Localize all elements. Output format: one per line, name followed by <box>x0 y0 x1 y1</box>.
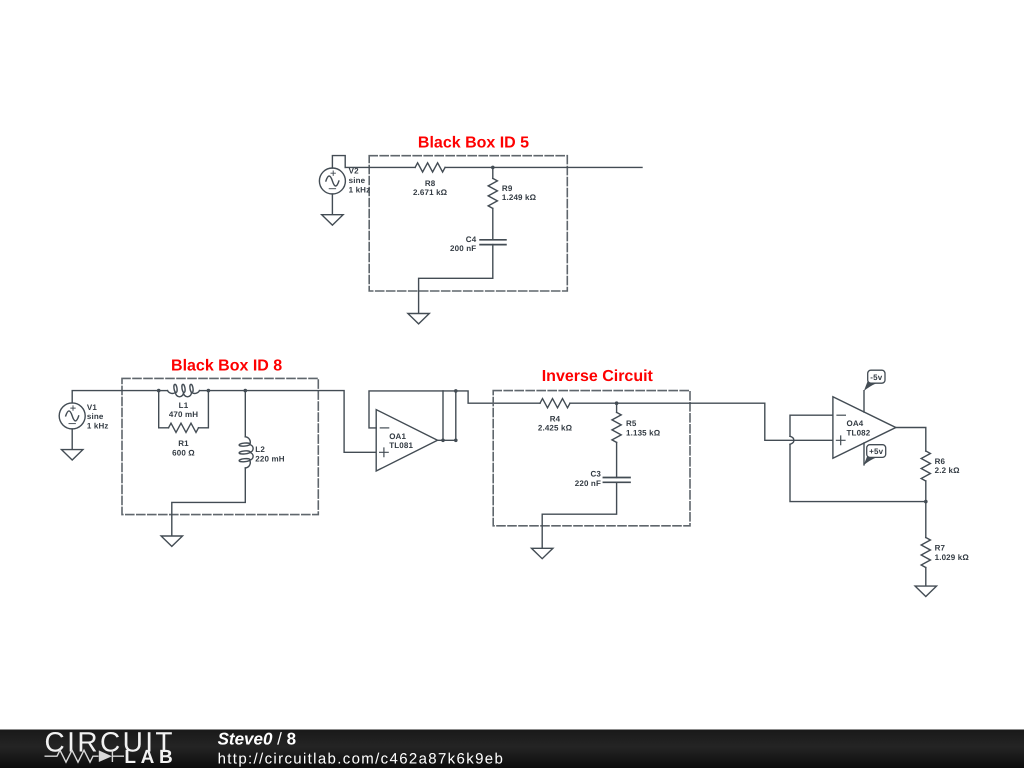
capacitor C3 <box>603 478 630 483</box>
dashed box 8 <box>122 378 318 514</box>
svg-text:2.2 kΩ: 2.2 kΩ <box>935 466 961 475</box>
node D <box>615 401 619 405</box>
svg-text:Steve0 / 8: Steve0 / 8 <box>218 730 296 749</box>
svg-text:R1: R1 <box>178 439 189 448</box>
svg-text:http://circuitlab.com/c462a87k: http://circuitlab.com/c462a87k6k9eb <box>218 751 505 768</box>
wire R6 to node E <box>925 481 927 538</box>
svg-text:1.029 kΩ: 1.029 kΩ <box>935 553 970 562</box>
svg-text:+5v: +5v <box>869 447 883 456</box>
resistor R8 <box>415 163 445 172</box>
wire V2 to ground <box>331 194 333 215</box>
svg-text:600 Ω: 600 Ω <box>172 448 195 457</box>
wire hop (crossing) <box>790 436 794 444</box>
op-amp OA1 TL081 <box>376 410 437 471</box>
wire R9 top lead <box>492 167 494 178</box>
resistor R1 <box>169 423 199 432</box>
wire OA1 output <box>438 439 456 441</box>
wire R1 right branch up <box>199 391 209 428</box>
svg-text:TL082: TL082 <box>847 429 871 438</box>
ground (V2) <box>322 215 343 225</box>
wire R5 top lead <box>616 403 618 412</box>
resistor R7 <box>921 538 930 568</box>
wire V1 top to main line <box>72 391 159 403</box>
inductor L1 <box>168 391 200 397</box>
svg-text:R7: R7 <box>935 544 946 553</box>
resistor R6 <box>921 451 930 481</box>
svg-text:-5v: -5v <box>870 373 882 382</box>
ground (box 5) <box>408 314 429 324</box>
resistor R5 <box>612 412 621 442</box>
inductor L2 <box>245 437 253 468</box>
wire L1 right lead <box>200 390 209 392</box>
node output bottom <box>454 439 458 443</box>
svg-text:2.425 kΩ: 2.425 kΩ <box>538 424 573 433</box>
svg-text:L1: L1 <box>179 401 189 410</box>
svg-text:R9: R9 <box>502 184 513 193</box>
wire R5 to C3 <box>616 442 618 477</box>
svg-text:Inverse Circuit: Inverse Circuit <box>542 368 654 385</box>
svg-text:1 kHz: 1 kHz <box>87 422 109 431</box>
wire main top line left of R8 <box>345 166 415 168</box>
svg-text:1 kHz: 1 kHz <box>349 186 371 195</box>
node B <box>207 389 211 393</box>
svg-text:V1: V1 <box>87 403 97 412</box>
svg-text:2.671 kΩ: 2.671 kΩ <box>413 188 448 197</box>
wire inverse to OA4 plus input <box>690 403 833 440</box>
svg-text:sine: sine <box>87 412 104 421</box>
node C <box>244 389 248 393</box>
svg-text:1.249 kΩ: 1.249 kΩ <box>502 193 537 202</box>
ground (inverse) <box>532 548 553 558</box>
wire L2 top lead <box>244 391 246 437</box>
svg-text:220 mH: 220 mH <box>255 454 284 463</box>
power flag +5v <box>864 456 877 466</box>
wire main top line right of R8 <box>445 166 642 168</box>
wire L2 bottom to ground run <box>172 468 246 536</box>
wire OA4 minus input <box>790 415 833 436</box>
svg-text:R6: R6 <box>935 457 946 466</box>
svg-text:Black Box ID 8: Black Box ID 8 <box>171 357 282 374</box>
resistor R9 <box>488 178 497 208</box>
node A left <box>157 389 161 393</box>
power flag -5v <box>864 381 877 391</box>
svg-text:TL081: TL081 <box>389 441 413 450</box>
svg-text:470 mH: 470 mH <box>169 410 198 419</box>
svg-text:R4: R4 <box>550 414 561 423</box>
ground (OA4) <box>915 586 936 596</box>
svg-text:C4: C4 <box>466 235 477 244</box>
capacitor C4 <box>480 240 506 245</box>
wire main line to node C <box>208 390 245 392</box>
wire OA4 output <box>896 428 926 452</box>
svg-text:OA1: OA1 <box>389 432 406 441</box>
node junction top <box>491 166 495 170</box>
svg-text:220 nF: 220 nF <box>575 479 601 488</box>
svg-text:L2: L2 <box>255 445 265 454</box>
svg-text:sine: sine <box>349 176 366 185</box>
wire R7 to ground <box>925 568 927 587</box>
node feedback bottom <box>441 439 445 443</box>
voltage source V2 <box>319 168 345 194</box>
wire OA4 bottom power pin <box>863 443 865 465</box>
wire C4 to ground run <box>419 245 493 314</box>
ground (box 8) <box>161 536 182 546</box>
wire R9 to C4 <box>492 208 494 239</box>
svg-text:C3: C3 <box>590 470 601 479</box>
wire feedback leg 1 <box>442 391 444 440</box>
ground (V1) <box>62 450 83 460</box>
wire OA4 top power pin <box>863 391 865 412</box>
wire C3 to ground run <box>542 482 616 548</box>
wire main line to op-amp plus input <box>245 391 376 453</box>
logo resistor-diode glyph <box>45 750 125 762</box>
svg-text:R8: R8 <box>425 179 436 188</box>
wire R4 to node D <box>570 402 690 404</box>
wire output riser <box>455 391 457 440</box>
op-amp OA4 TL082 <box>833 397 896 458</box>
svg-text:LAB: LAB <box>124 747 172 768</box>
svg-text:1.135 kΩ: 1.135 kΩ <box>626 429 661 438</box>
wire L1 left lead <box>159 390 168 392</box>
node E <box>924 500 928 504</box>
wire V2 top jog <box>332 156 345 168</box>
wire R1 left branch down <box>159 391 169 428</box>
wire V1 to ground <box>71 429 73 450</box>
voltage source V1 <box>59 403 85 429</box>
wire OA1 feedback loop <box>369 391 540 428</box>
svg-text:R5: R5 <box>626 419 637 428</box>
node output top <box>454 389 458 393</box>
dashed box inverse <box>493 391 690 526</box>
wire feedback lower run <box>790 444 926 501</box>
svg-text:OA4: OA4 <box>847 419 864 428</box>
svg-text:Black Box ID 5: Black Box ID 5 <box>418 135 529 152</box>
svg-text:200 nF: 200 nF <box>450 244 476 253</box>
dashed box 5 <box>369 156 567 291</box>
resistor R4 <box>540 399 570 408</box>
